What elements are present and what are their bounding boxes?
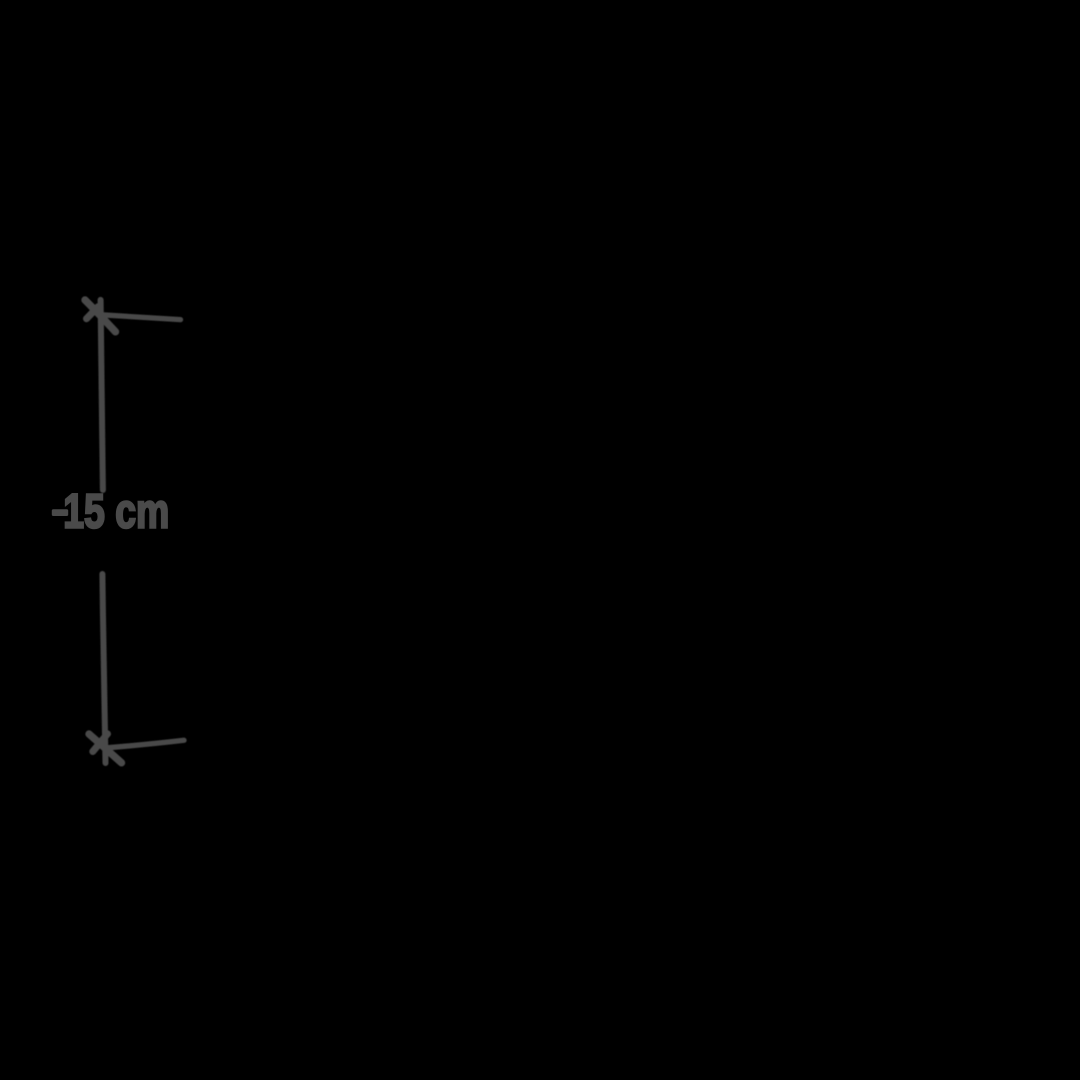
label "-15 cm": text bbox=[63, 485, 169, 539]
bottom tick mark: backslash stroke bbox=[89, 734, 122, 763]
svg-text:15 cm: 15 cm bbox=[63, 485, 169, 539]
top extension line (horizontal) bbox=[102, 315, 181, 320]
label "-15 cm": minus sign bbox=[52, 509, 68, 516]
dimension line lower segment bbox=[102, 574, 105, 763]
dimension line upper segment bbox=[101, 300, 103, 490]
bottom tick mark: slash stroke bbox=[93, 734, 108, 752]
top tick mark: slash stroke bbox=[87, 307, 99, 319]
bottom extension line (horizontal) bbox=[107, 740, 184, 748]
top tick mark: backslash stroke bbox=[85, 300, 116, 332]
